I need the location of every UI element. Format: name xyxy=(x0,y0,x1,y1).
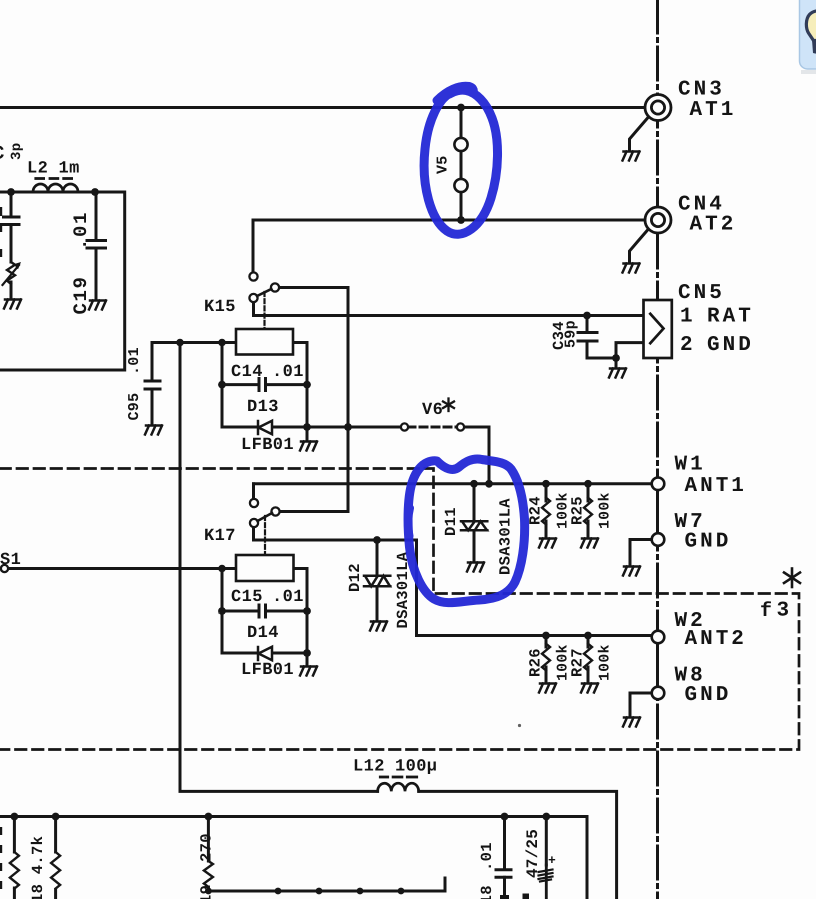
svg-text:19: 19 xyxy=(198,885,216,899)
svg-text:.01: .01 xyxy=(272,363,304,382)
svg-text:GND: GND xyxy=(685,684,732,707)
svg-text:100k: 100k xyxy=(598,492,614,529)
svg-text:+: + xyxy=(548,853,556,868)
svg-text:V5: V5 xyxy=(435,155,452,174)
svg-text:L12: L12 xyxy=(353,758,385,777)
svg-text:.01: .01 xyxy=(272,588,304,607)
svg-text:.01: .01 xyxy=(70,211,92,250)
svg-text:D13: D13 xyxy=(247,398,279,417)
svg-text:D11: D11 xyxy=(442,507,460,536)
svg-text:3p: 3p xyxy=(9,143,25,160)
svg-text:K15: K15 xyxy=(204,298,236,317)
svg-text:1: 1 xyxy=(680,306,696,329)
svg-text:C19: C19 xyxy=(70,275,92,314)
svg-text:C18: C18 xyxy=(478,885,496,899)
svg-text:CN5: CN5 xyxy=(678,282,725,305)
svg-text:R24: R24 xyxy=(527,496,545,525)
svg-text:S1: S1 xyxy=(0,551,21,570)
svg-text:.01: .01 xyxy=(478,842,496,871)
svg-text:AT1: AT1 xyxy=(690,99,737,122)
svg-text:AT2: AT2 xyxy=(690,214,737,237)
svg-text:2: 2 xyxy=(680,334,696,357)
svg-text:C14: C14 xyxy=(231,363,263,382)
svg-text:100µ: 100µ xyxy=(395,758,437,777)
svg-text:GND: GND xyxy=(707,334,754,357)
svg-text:D12: D12 xyxy=(346,563,364,592)
svg-text:DSA301LA: DSA301LA xyxy=(497,498,515,575)
svg-text:47/25: 47/25 xyxy=(524,829,542,878)
svg-text:1m: 1m xyxy=(59,160,80,179)
svg-text:270: 270 xyxy=(198,833,216,862)
svg-text:GND: GND xyxy=(685,531,732,554)
svg-text:R26: R26 xyxy=(527,648,545,677)
svg-text:C95: C95 xyxy=(126,393,143,421)
svg-text:18 4.7k: 18 4.7k xyxy=(29,836,47,899)
svg-text:f: f xyxy=(760,600,772,623)
svg-text:RAT: RAT xyxy=(707,306,754,329)
svg-text:LFB01: LFB01 xyxy=(241,436,294,455)
svg-text:D14: D14 xyxy=(247,624,279,643)
svg-text:LFB01: LFB01 xyxy=(241,661,294,680)
svg-text:W1: W1 xyxy=(675,454,706,477)
svg-text:V6: V6 xyxy=(422,401,443,420)
svg-text:3: 3 xyxy=(777,600,790,623)
svg-text:R25: R25 xyxy=(569,496,587,525)
svg-text:59p: 59p xyxy=(563,320,580,348)
svg-text:R27: R27 xyxy=(569,648,587,677)
svg-text:C: C xyxy=(0,143,5,165)
svg-text:L2: L2 xyxy=(27,160,48,179)
svg-text:ANT1: ANT1 xyxy=(685,475,747,498)
svg-text:ANT2: ANT2 xyxy=(685,628,747,651)
svg-text:100k: 100k xyxy=(598,644,614,681)
svg-text:K17: K17 xyxy=(204,527,236,546)
svg-text:C15: C15 xyxy=(231,588,263,607)
svg-text:.01: .01 xyxy=(126,347,143,375)
